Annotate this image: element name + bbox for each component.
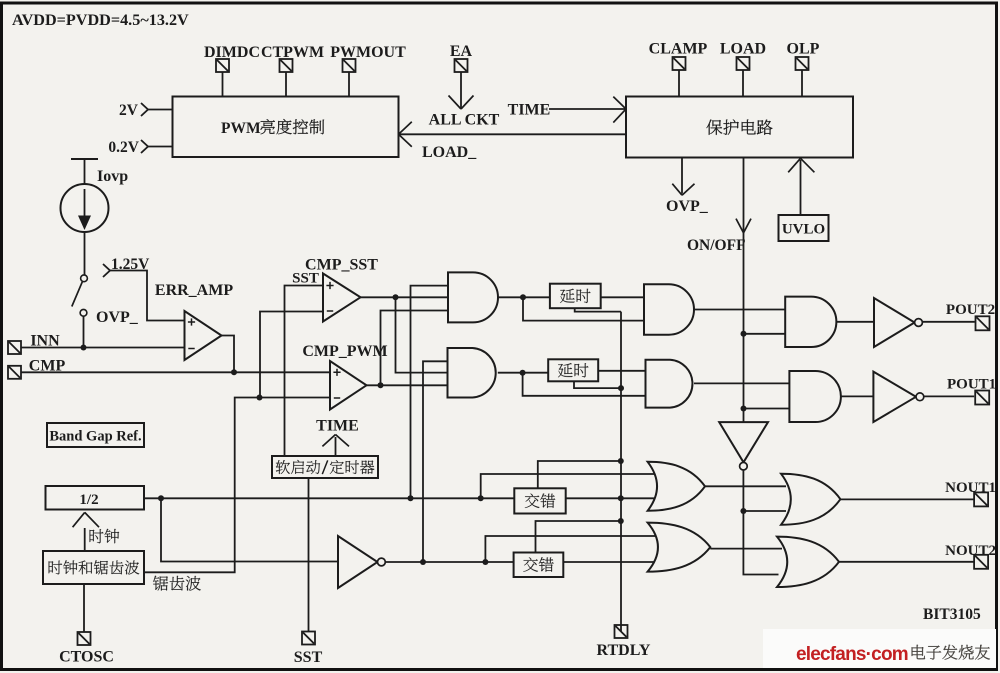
- svg-text:PWMOUT: PWMOUT: [330, 44, 406, 61]
- svg-text:CMP: CMP: [29, 357, 66, 374]
- label 延时 D1: [560, 289, 590, 303]
- wire DIMDC pin to PWM block: [222, 72, 224, 97]
- label CTOSC: [59, 649, 114, 666]
- svg-text:LOAD_: LOAD_: [422, 144, 477, 161]
- svg-text:LOAD: LOAD: [720, 41, 766, 58]
- pin POUT1: [975, 391, 989, 405]
- wire AND U5 output to inverter U13: [836, 321, 874, 323]
- node inverter U7 output junction: [740, 508, 746, 514]
- wire TIME into protection block: [549, 108, 626, 110]
- label 时钟和锯齿波: [49, 560, 140, 574]
- pin NOUT1: [974, 492, 988, 506]
- label RTDLY: [597, 642, 651, 659]
- wire interleave U8 output to OR gate U10: [566, 497, 655, 499]
- wire delay D1 bottom to RTDLY net: [575, 308, 621, 311]
- label PWMOUT: [330, 44, 406, 61]
- svg-text:NOUT2: NOUT2: [945, 543, 996, 559]
- svg-text:OVP_: OVP_: [96, 309, 139, 326]
- OR gate U10: [648, 462, 705, 511]
- svg-text:BIT3105: BIT3105: [923, 606, 981, 623]
- node RTDLY junction at U8 link: [618, 458, 624, 464]
- wire current source I1 to switch S1: [84, 232, 86, 275]
- label 1/2: [79, 492, 98, 508]
- label SST at comparator input: [292, 271, 319, 287]
- node divider output junction 1: [158, 495, 164, 501]
- svg-text:TIME: TIME: [316, 418, 359, 435]
- arrow clock up into divider block: [73, 512, 99, 527]
- label OVP_ at switch: [96, 309, 139, 326]
- delay block D2: [548, 359, 598, 381]
- svg-text:RTDLY: RTDLY: [597, 642, 651, 659]
- node RTDLY junction at U8 output: [618, 495, 624, 501]
- inverter U7 pointing down: [719, 422, 768, 470]
- wire 2V input to PWM block: [148, 109, 173, 111]
- svg-text:CLAMP: CLAMP: [649, 41, 708, 58]
- node CMP junction at ERR_AMP output: [231, 369, 237, 375]
- svg-text:PWM: PWM: [221, 120, 261, 137]
- protection circuit block U_PROT: [626, 97, 853, 158]
- label 保护电路: [706, 119, 772, 134]
- arrow LOAD_ into PWM block: [399, 122, 412, 147]
- pin PWMOUT: [343, 59, 356, 72]
- svg-text:1.25V: 1.25V: [111, 256, 150, 273]
- svg-text:TIME: TIME: [508, 102, 551, 119]
- wire inverter U14 output to POUT1 pin: [924, 395, 974, 397]
- label Iovp: [97, 168, 128, 185]
- current source I1 Iovp: [61, 184, 109, 232]
- wire CTPWM pin to PWM block: [285, 72, 287, 97]
- wire AND U3 output to AND gate U5: [694, 309, 785, 311]
- pin EA: [455, 59, 468, 72]
- label TIME at soft-start block: [316, 418, 359, 435]
- logo 电子发烧友: [912, 645, 990, 660]
- pin DIMDC: [216, 59, 229, 72]
- AND gate U3: [644, 284, 694, 334]
- wire LOAD_ from protection block to PWM block: [399, 133, 627, 135]
- node ON/OFF junction at U6: [741, 406, 747, 412]
- wire AND U1 output bypass to AND gate U3: [523, 297, 651, 320]
- label 软启动/定时器: [276, 460, 374, 474]
- node INN junction at switch: [81, 345, 87, 351]
- wire clock block down to CTOSC pin: [83, 584, 85, 632]
- label 交错 U11: [523, 557, 553, 572]
- divider 1/2 block U_DIV: [46, 486, 145, 510]
- svg-text:NOUT1: NOUT1: [945, 480, 996, 496]
- label ALL CKT: [429, 112, 500, 129]
- wire CMP_PWM output to AND gate U2: [367, 384, 448, 386]
- pin NOUT2: [974, 555, 988, 569]
- AND gate U6: [789, 371, 841, 422]
- logo elecfans.com: [796, 644, 908, 665]
- label INN: [30, 333, 60, 350]
- arrow ON/OFF down: [736, 219, 751, 233]
- wire SST node to CMP_SST noninverting input and soft-start block: [285, 286, 324, 457]
- pin CLAMP: [673, 57, 686, 70]
- wire LOAD pin to protection block: [742, 70, 744, 97]
- wire switch S1 to node INN: [83, 317, 85, 348]
- wire divider output branch up to AND gate U1: [411, 286, 449, 499]
- AND gate U4: [646, 360, 693, 408]
- wire inverter U9 output to interleave block U11: [385, 561, 513, 563]
- interleave block U8: [514, 488, 565, 513]
- svg-text:AVDD=PVDD=4.5~13.2V: AVDD=PVDD=4.5~13.2V: [12, 11, 189, 29]
- svg-text:ON/OFF: ON/OFF: [687, 237, 746, 254]
- wire CMP_SST output to AND gate U1: [361, 296, 449, 298]
- wire CMP_SST output branch down to AND gate U2: [396, 297, 448, 372]
- clock and sawtooth block U_OSC: [43, 551, 144, 584]
- pin SST: [302, 632, 315, 645]
- node CMP_SST output junction: [393, 294, 399, 300]
- label EA: [450, 43, 473, 60]
- label ERR_AMP: [155, 282, 233, 299]
- Band Gap Reference block U_BG: [47, 423, 144, 447]
- pin CTPWM: [280, 59, 293, 72]
- wire inverter output branch up to AND gate U2: [423, 361, 448, 562]
- label 2V input terminal: [119, 102, 148, 119]
- svg-text:CMP_PWM: CMP_PWM: [302, 343, 387, 360]
- label NOUT2: [945, 543, 996, 559]
- inverter U14: [873, 372, 923, 422]
- wire OR U15 output to NOUT1 pin: [840, 498, 974, 500]
- pin CTOSC: [78, 632, 91, 645]
- wire AND U2 output to delay block D2: [498, 372, 548, 374]
- arrow UVLO up into protection block: [788, 158, 814, 172]
- label OVP_ below protection block: [666, 198, 709, 215]
- op-amp ERR_AMP: [185, 311, 222, 360]
- svg-text:OLP: OLP: [787, 41, 820, 58]
- label 锯齿波: [153, 576, 201, 591]
- label POUT2: [946, 302, 995, 318]
- pin INN: [8, 341, 21, 354]
- node RTDLY junction at D2: [618, 385, 624, 391]
- label CLAMP: [649, 41, 708, 58]
- label 时钟: [90, 529, 120, 543]
- svg-text:UVLO: UVLO: [782, 222, 825, 238]
- logo background strip: [763, 629, 996, 668]
- wire EA pin down to ALL CKT arrow: [460, 72, 462, 108]
- wire ON/OFF from protection block down to inverter U7: [743, 158, 745, 423]
- label 交错 U8: [525, 493, 555, 508]
- node sawtooth junction: [257, 395, 263, 401]
- wire divider output branch to OR gate U10: [481, 474, 655, 498]
- wire sawtooth branch to CMP_SST inverting input: [260, 312, 323, 398]
- label BIT3105: [923, 606, 981, 623]
- arrow TIME into protection block: [613, 97, 626, 123]
- interleave block U11: [514, 553, 564, 578]
- wire ON/OFF branch to AND gate U5: [744, 333, 786, 335]
- label DIMDC: [204, 44, 260, 61]
- label CMP: [29, 357, 66, 374]
- wire ERR_AMP output down to CMP node: [222, 336, 235, 373]
- wire INN pin to ERR_AMP inverting input: [21, 347, 185, 349]
- wire delay D2 bottom to RTDLY net: [574, 381, 621, 388]
- label UVLO: [782, 222, 825, 238]
- wire OLP pin to protection block: [801, 70, 803, 97]
- UVLO block U_UVLO: [779, 215, 829, 241]
- wire sawtooth from clock block to CMP_PWM inverting input: [144, 398, 330, 573]
- AND gate U5: [785, 297, 836, 347]
- svg-text:CTOSC: CTOSC: [59, 649, 114, 666]
- label OLP: [787, 41, 820, 58]
- wire AND U6 output to inverter U14: [841, 395, 874, 397]
- node U2 output junction: [520, 370, 526, 376]
- pin OLP: [796, 57, 809, 70]
- node RTDLY junction at U11 link: [618, 518, 624, 524]
- label NOUT1: [945, 480, 996, 496]
- svg-text:INN: INN: [30, 333, 60, 350]
- wire AND U1 output to delay block D1: [498, 296, 550, 298]
- wire divider 1/2 output to interleave block U8: [144, 497, 514, 499]
- node divider output junction 3: [478, 495, 484, 501]
- node CMP_PWM output junction: [378, 382, 384, 388]
- wire OVP_ output down from protection block: [681, 158, 683, 194]
- comparator CMP_SST: [323, 274, 361, 322]
- PWM brightness control block U_PWM: [173, 97, 399, 158]
- label SST: [294, 649, 323, 666]
- wire inverter U13 output to POUT2 pin: [923, 321, 975, 323]
- label 1.25V reference terminal: [103, 256, 150, 277]
- wire TIME arrow into soft-start timer block: [335, 437, 337, 456]
- label ON/OFF: [687, 237, 746, 254]
- svg-text:0.2V: 0.2V: [108, 139, 139, 156]
- wire interleave U11 output to OR gate U12: [563, 561, 655, 563]
- wire clock block to divider 1/2 block: [84, 528, 86, 551]
- wire delay D2 output to AND gate U4: [598, 370, 652, 372]
- svg-text:OVP_: OVP_: [666, 198, 709, 215]
- wire 0.2V input to PWM block: [148, 146, 173, 148]
- wire inverter U7 branch to OR gate U15: [743, 510, 786, 512]
- wire soft-start block down to SST pin: [308, 478, 310, 632]
- label CMP_PWM: [302, 343, 387, 360]
- label PWM亮度控制: [221, 119, 324, 137]
- wire delay D1 output to AND gate U3: [601, 296, 651, 298]
- svg-text:SST: SST: [292, 271, 319, 287]
- delay block D1: [550, 284, 601, 309]
- arrow EA to ALL CKT: [449, 96, 474, 110]
- label POUT1: [947, 377, 996, 393]
- label 0.2V input terminal: [108, 139, 148, 156]
- wire PWMOUT pin to PWM block: [348, 72, 350, 97]
- label AVDD=PVDD=4.5~13.2V: [12, 11, 189, 29]
- wire inverter U7 output down: [743, 470, 778, 575]
- label LOAD_: [422, 144, 477, 161]
- label CTPWM: [261, 44, 324, 61]
- svg-text:EA: EA: [450, 43, 473, 60]
- label Band Gap Ref.: [49, 429, 141, 445]
- label TIME at protection input: [508, 102, 551, 119]
- node U1 output junction: [520, 294, 526, 300]
- svg-text:ALL CKT: ALL CKT: [429, 112, 500, 129]
- node divider output junction 2: [408, 495, 414, 501]
- svg-text:CTPWM: CTPWM: [261, 44, 324, 61]
- svg-text:2V: 2V: [119, 102, 139, 119]
- node inverter U9 output junction 1: [420, 559, 426, 565]
- wire 1.25V reference to ERR_AMP noninverting input: [110, 271, 185, 321]
- svg-text:POUT2: POUT2: [946, 302, 995, 318]
- wire OR U10 output to OR gate U15: [705, 485, 786, 487]
- label 延时 D2: [558, 363, 588, 377]
- label CMP_SST: [305, 257, 378, 274]
- inverter U9: [338, 536, 385, 588]
- wire inverter output branch to OR gate U12: [485, 536, 655, 562]
- inverter U13: [874, 298, 922, 347]
- svg-text:elecfans·com: elecfans·com: [796, 644, 908, 665]
- svg-text:SST: SST: [294, 649, 323, 666]
- AND gate U1: [448, 272, 498, 322]
- wire CMP_PWM output branch up to AND gate U1: [381, 311, 449, 386]
- node ON/OFF junction at U5: [741, 331, 747, 337]
- node inverter U9 output junction 2: [482, 559, 488, 565]
- wire interleave U11 top link to RTDLY net: [536, 521, 621, 553]
- svg-text:Band Gap Ref.: Band Gap Ref.: [49, 429, 141, 445]
- wire AND U2 output bypass to AND gate U4: [523, 373, 652, 396]
- wire CLAMP pin to protection block: [678, 70, 680, 97]
- wire top rail to current source I1: [84, 159, 86, 184]
- wire OR U16 output to NOUT2 pin: [839, 561, 975, 563]
- arrow TIME up from soft-start block: [322, 435, 349, 447]
- OR gate U15: [781, 474, 840, 525]
- OR gate U12: [648, 523, 711, 572]
- pin LOAD: [737, 57, 750, 70]
- wire interleave U8 top link to RTDLY net: [538, 461, 621, 488]
- AND gate U2: [448, 348, 496, 398]
- svg-text:Iovp: Iovp: [97, 168, 128, 185]
- wire Iovp top rail: [71, 158, 98, 160]
- pin POUT2: [976, 316, 990, 330]
- svg-text:ERR_AMP: ERR_AMP: [155, 282, 233, 299]
- switch S1 OVP_: [72, 275, 88, 316]
- label LOAD: [720, 41, 766, 58]
- OR gate U16: [777, 537, 839, 587]
- wire ON/OFF branch to AND gate U6: [744, 408, 790, 410]
- wire AND U4 output to AND gate U6: [694, 382, 789, 384]
- svg-text:POUT1: POUT1: [947, 377, 996, 393]
- wire OR U12 output to OR gate U16: [710, 548, 782, 550]
- wire CMP pin to CMP_PWM noninverting input: [21, 371, 330, 373]
- wire RTDLY net vertical: [620, 312, 622, 632]
- svg-text:DIMDC: DIMDC: [204, 44, 260, 61]
- arrow OVP_ down: [672, 184, 694, 196]
- soft-start/timer block U_SST: [272, 456, 378, 478]
- pin CMP: [8, 366, 21, 379]
- wire UVLO box up to protection block: [800, 160, 802, 215]
- wire divider output branch down to inverter U9 input: [161, 498, 338, 561]
- comparator CMP_PWM: [330, 361, 367, 410]
- svg-text:1/2: 1/2: [79, 492, 98, 508]
- pin RTDLY: [615, 625, 628, 638]
